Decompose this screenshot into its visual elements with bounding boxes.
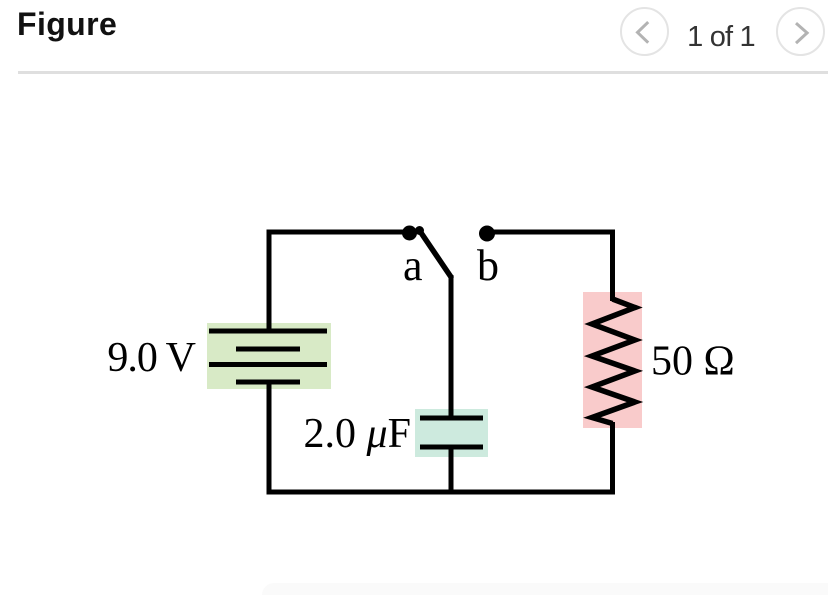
wire: capacitor to bottom wire [449, 447, 454, 495]
switch contact a (node a) [402, 226, 417, 241]
wire: top left horizontal to switch contact a [267, 230, 410, 235]
battery highlight [207, 323, 331, 389]
svg-text:50 Ω: 50 Ω [651, 339, 735, 385]
capacitor C1 2.0 uF plates [420, 416, 483, 421]
wire: right vertical bottom (resistor to bottom wire) [610, 422, 615, 495]
svg-text:9.0 V: 9.0 V [107, 335, 195, 381]
resistor R1 50 ohm zigzag [592, 299, 635, 424]
svg-text:a: a [403, 241, 423, 290]
switch contact b (node b) [479, 226, 495, 242]
wire: bottom horizontal [267, 490, 616, 495]
wire: left vertical bottom (battery - to bottom-left corner) [267, 382, 272, 494]
wire: top right horizontal from contact b to top-right corner [492, 230, 615, 235]
wire: right vertical top (to resistor) [610, 230, 615, 302]
next button [776, 7, 825, 56]
capacitor highlight [415, 409, 488, 457]
wire: switch arm lower vertical to capacitor [449, 275, 454, 418]
prev button [620, 7, 669, 56]
svg-text:2.0 μF: 2.0 μF [304, 411, 411, 457]
battery B1 9.0 V plates [209, 329, 327, 334]
resistor highlight [583, 292, 642, 428]
wire: left vertical top (battery + to top-left corner) [267, 230, 272, 332]
top edge of next card below [262, 583, 828, 595]
svg-text:b: b [477, 241, 499, 290]
switch arm (open, from a toward lower right) [420, 231, 452, 278]
